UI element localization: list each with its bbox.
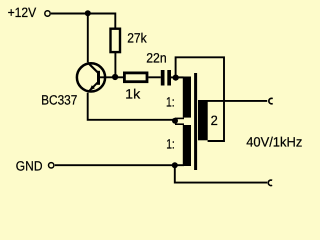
svg-text:22n: 22n — [146, 50, 167, 65]
terminal GND — [49, 163, 54, 168]
svg-text:1:: 1: — [166, 94, 175, 109]
Q1 base bar — [97, 71, 100, 85]
svg-text:27k: 27k — [127, 30, 147, 45]
wire 1k to cap — [148, 76, 161, 78]
Q1 collector lead — [88, 63, 98, 73]
node GND output branch — [172, 162, 178, 168]
wire collector — [87, 14, 89, 63]
node collector branch — [85, 10, 91, 16]
wire cap to node — [171, 76, 176, 78]
node feedback — [173, 75, 179, 81]
wire feedback loop up/over/down to secondary bottom — [176, 57, 224, 141]
transformer core — [194, 73, 197, 170]
capacitor 22n plate 2 — [167, 70, 171, 86]
wire GND to W2 bottom — [55, 164, 184, 166]
wire secondary top to output — [200, 100, 267, 102]
Q1 emitter lead with arrow — [89, 82, 98, 91]
svg-text:GND: GND — [16, 158, 43, 173]
output terminal bottom — [268, 180, 272, 186]
resistor 27k — [111, 29, 121, 52]
terminal +12V — [45, 11, 50, 16]
output terminal top — [269, 98, 273, 104]
node base junction — [112, 74, 118, 80]
svg-text:1k: 1k — [125, 87, 140, 102]
svg-text:BC337: BC337 — [41, 93, 77, 108]
capacitor 22n plate 1 — [161, 70, 165, 86]
transformer primary winding W2 — [183, 125, 191, 166]
resistor 1k — [124, 73, 147, 82]
wire base — [100, 76, 123, 78]
winding lead pair at centre tap — [175, 117, 184, 119]
transformer secondary winding — [198, 100, 208, 140]
wire to bottom output — [175, 165, 267, 182]
transistor Q1 BC337 body — [77, 63, 105, 91]
wire +12V rail — [51, 14, 115, 29]
svg-text:+12V: +12V — [8, 5, 37, 20]
wire 27k to base node — [114, 53, 116, 77]
transformer primary winding W1 — [183, 77, 191, 118]
wire node to winding W1 top — [176, 76, 184, 78]
svg-text:40V/1kHz: 40V/1kHz — [246, 135, 302, 150]
svg-text:2: 2 — [211, 113, 218, 128]
svg-text:1:: 1: — [166, 136, 175, 151]
node centre tap — [172, 118, 178, 124]
wire emitter to centre tap — [88, 93, 175, 120]
